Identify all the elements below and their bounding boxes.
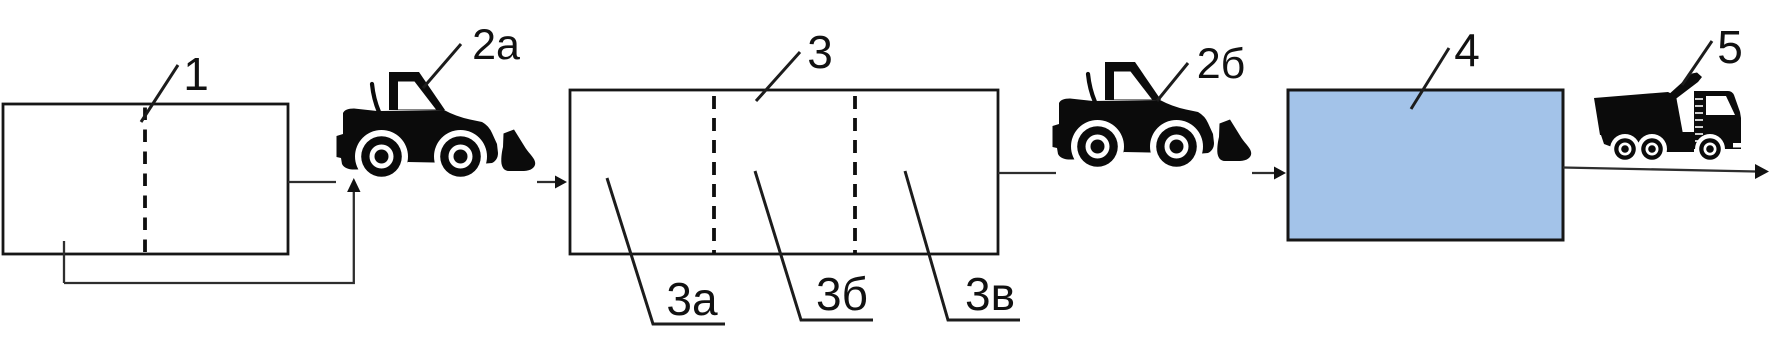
loader 2b (1053, 62, 1252, 173)
loader 2a (337, 72, 536, 183)
svg-text:5: 5 (1717, 21, 1743, 73)
box 3 dashed divider right (853, 92, 857, 255)
box 1 (block 1 rectangle) (3, 104, 288, 254)
truck bed raised lid (1667, 73, 1702, 102)
label 4 leader line (1411, 48, 1449, 109)
truck wheel wells (1610, 134, 1640, 164)
label 2a leader line (423, 44, 461, 88)
svg-text:3в: 3в (965, 268, 1015, 320)
box 3 dashed divider left (712, 92, 716, 255)
wire feedback vertical inside box1 (63, 241, 65, 283)
truck wheels (1614, 138, 1636, 160)
wire box 3 to loader 2b (998, 172, 1056, 174)
truck cab window (1706, 96, 1735, 115)
box 4 (blue block rectangle) (1288, 90, 1563, 240)
label 3 leader line (756, 52, 800, 101)
truck bed (1594, 92, 1683, 135)
truck chassis (1600, 132, 1694, 152)
wire box1 to loader 2a (288, 181, 336, 183)
label 1 leader line (141, 65, 178, 122)
wire feedback bottom horizontal (64, 190, 354, 283)
svg-text:3б: 3б (816, 268, 868, 320)
arrow output (1755, 164, 1769, 179)
truck cab (1694, 91, 1741, 149)
arrow up under loader 2a (347, 178, 360, 192)
arrow into box 4 (1274, 167, 1286, 180)
truck bumper notch (1733, 143, 1741, 148)
label 3b leader line (755, 171, 873, 320)
svg-text:1: 1 (183, 48, 209, 100)
svg-text:2а: 2а (472, 21, 520, 69)
wire box 4 to output (1563, 168, 1756, 172)
wire loader 2a to box 3 (537, 181, 557, 183)
truck 5 (1594, 73, 1741, 165)
box 3 (sorting block rectangle) (570, 90, 998, 254)
label 2b leader line (1157, 63, 1188, 101)
arrow into box 3 (555, 176, 567, 189)
wire loader 2b to box 4 (1252, 172, 1275, 174)
truck grille stripes (1695, 99, 1703, 141)
label 3v leader line (905, 171, 1020, 320)
label 3a leader line (607, 178, 725, 324)
svg-text:4: 4 (1454, 24, 1480, 76)
svg-text:3: 3 (807, 26, 833, 78)
label 5 leader line (1682, 41, 1712, 85)
svg-text:3а: 3а (666, 273, 718, 325)
svg-text:2б: 2б (1197, 40, 1246, 88)
box 1 dashed divider (143, 106, 147, 255)
